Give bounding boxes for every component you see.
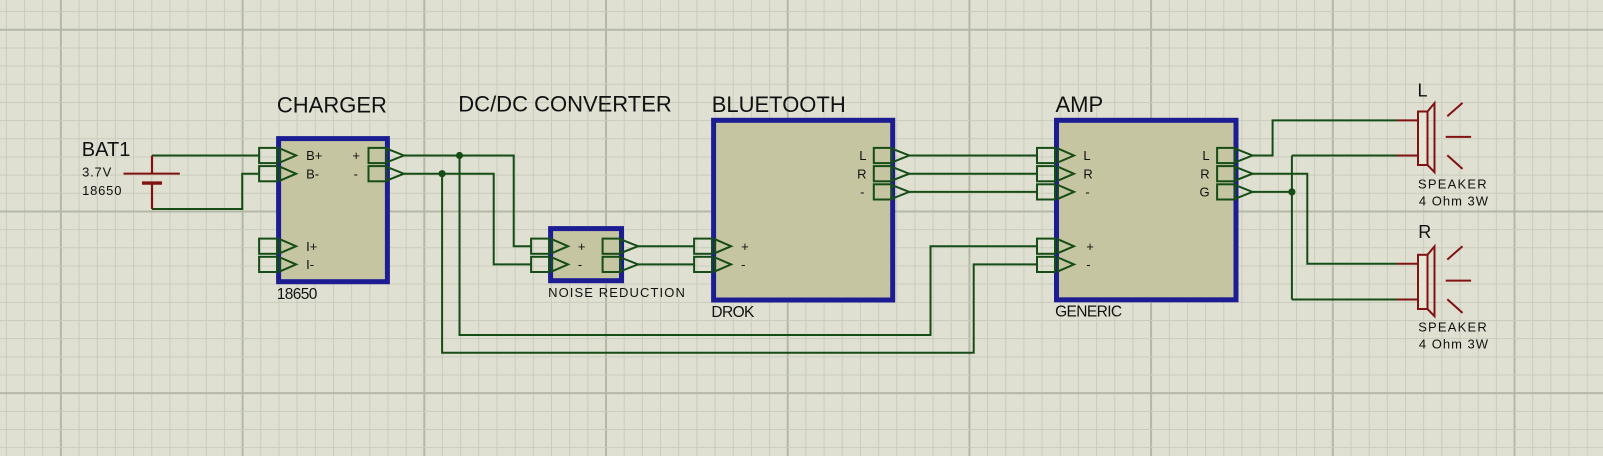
svg-text:L: L xyxy=(859,148,866,163)
svg-text:L: L xyxy=(1083,148,1090,163)
svg-text:3.7V: 3.7V xyxy=(82,164,112,179)
svg-text:B+: B+ xyxy=(306,148,322,163)
svg-text:DC/DC CONVERTER: DC/DC CONVERTER xyxy=(458,92,672,117)
svg-text:GENERIC: GENERIC xyxy=(1055,304,1122,321)
svg-text:R: R xyxy=(1418,222,1431,242)
svg-text:-: - xyxy=(1085,185,1089,200)
svg-text:-: - xyxy=(354,166,358,181)
svg-text:CHARGER: CHARGER xyxy=(277,93,387,118)
svg-text:+: + xyxy=(1086,239,1094,254)
svg-text:+: + xyxy=(352,148,360,163)
svg-text:-: - xyxy=(860,185,864,200)
svg-text:R: R xyxy=(1200,166,1209,181)
svg-text:+: + xyxy=(741,239,749,254)
svg-text:R: R xyxy=(1083,166,1092,181)
svg-text:-: - xyxy=(741,257,745,272)
svg-text:R: R xyxy=(857,166,866,181)
svg-text:SPEAKER: SPEAKER xyxy=(1418,177,1488,192)
svg-text:G: G xyxy=(1199,185,1209,200)
svg-text:NOISE REDUCTION: NOISE REDUCTION xyxy=(548,285,686,300)
svg-text:SPEAKER: SPEAKER xyxy=(1418,320,1488,335)
svg-text:AMP: AMP xyxy=(1056,92,1104,117)
svg-text:I-: I- xyxy=(306,257,314,272)
svg-text:4 Ohm 3W: 4 Ohm 3W xyxy=(1419,337,1489,352)
svg-text:I+: I+ xyxy=(306,239,317,254)
svg-text:18650: 18650 xyxy=(82,183,122,198)
svg-text:L: L xyxy=(1418,81,1428,101)
svg-text:+: + xyxy=(578,239,586,254)
svg-text:-: - xyxy=(578,257,582,272)
svg-text:-: - xyxy=(1086,257,1090,272)
svg-text:BAT1: BAT1 xyxy=(82,139,131,161)
svg-text:DROK: DROK xyxy=(711,304,755,321)
svg-text:L: L xyxy=(1202,148,1209,163)
svg-text:BLUETOOTH: BLUETOOTH xyxy=(712,92,846,117)
svg-text:4 Ohm 3W: 4 Ohm 3W xyxy=(1419,193,1489,208)
svg-text:B-: B- xyxy=(306,166,319,181)
svg-text:18650: 18650 xyxy=(277,286,318,303)
